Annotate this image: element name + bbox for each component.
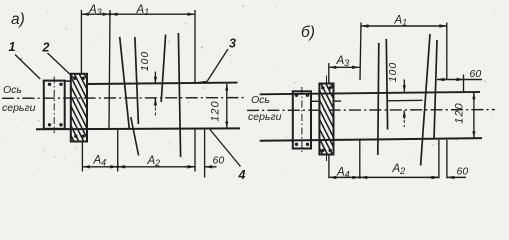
dimension 100 (radial) variant b — [387, 62, 406, 127]
label Ось серьги variant b — [248, 94, 282, 123]
dimension A4 variant a — [82, 155, 117, 169]
spring leaf end line t2a variant b — [421, 34, 430, 166]
spring leaf end line t1a variant b — [378, 43, 379, 155]
spring leaf end line t2a variant a — [161, 35, 165, 103]
item number 4 with leader — [210, 130, 246, 183]
svg-text:100: 100 — [387, 62, 399, 83]
svg-text:120: 120 — [210, 100, 222, 121]
dimension A1 variant b — [361, 15, 447, 28]
svg-text:б): б) — [301, 24, 315, 41]
dimension 60 top (outside arrows) variant b — [437, 68, 482, 93]
axis centerline (Ось серьги) variant a — [2, 97, 247, 100]
svg-text:4: 4 — [238, 168, 246, 181]
svg-text:100: 100 — [139, 51, 151, 72]
label b) variant marker — [301, 24, 315, 41]
hatched bushing variant b — [247, 76, 440, 162]
svg-text:120: 120 — [453, 102, 465, 123]
intermediate leaf top line segments variant b — [311, 100, 423, 101]
svg-text:60: 60 — [470, 68, 482, 80]
dimension 120 (vertical) variant a — [210, 84, 229, 129]
pin bottom outline line variant a — [36, 127, 240, 130]
shared extension line A3/A1 variant b — [360, 23, 361, 81]
svg-text:1: 1 — [9, 40, 16, 54]
spring leaf end line t1b variant b — [386, 39, 387, 130]
extension line A4/A2 boundary variant b — [359, 140, 361, 178]
spring leaf end line t1x (below) variant a — [131, 117, 139, 156]
svg-text:серьги: серьги — [248, 111, 282, 123]
extension line left of A3 (shackle axis) variant a — [80, 10, 82, 74]
extension line 60 left variant b — [438, 140, 440, 179]
pin bottom outline line variant b — [260, 138, 482, 141]
dimension 100 (radial) variant a — [139, 51, 157, 117]
dimension A3 variant b — [329, 55, 360, 69]
dimension 60 bottom (outside arrows) variant b — [428, 166, 468, 180]
item number 2 with leader — [42, 41, 76, 80]
extension line A4 left variant a — [81, 142, 83, 172]
label a) variant marker — [11, 11, 25, 28]
label Ось серьги variant a — [2, 84, 36, 114]
extension line A3 left variant b — [328, 63, 330, 84]
svg-text:серьги: серьги — [2, 102, 36, 114]
svg-text:Ось: Ось — [3, 84, 22, 96]
extension line 60 right variant a — [204, 129, 206, 178]
spring leaf end line t1b variant a — [135, 37, 139, 124]
dimension A2 variant b — [358, 163, 439, 179]
item number 3 with leader arrow — [199, 37, 237, 85]
spring leaf end line t2b variant b — [434, 40, 437, 140]
hatched bushing 2 (item 2) variant a — [1, 74, 187, 142]
dimension 120 (vertical) variant b — [453, 92, 475, 138]
pin top outline line variant b — [260, 92, 480, 94]
extension line right of A1 variant a — [194, 10, 196, 172]
spring leaf end line t1a variant a — [120, 37, 130, 129]
item number 1 with leader — [9, 40, 41, 79]
svg-text:60: 60 — [457, 166, 469, 178]
dimension A3 variant a — [81, 4, 110, 17]
dimension 60 (outside arrows) variant a — [184, 155, 225, 169]
svg-text:60: 60 — [213, 155, 225, 167]
shackle plate 1 (item 1) variant a — [44, 77, 71, 134]
svg-text:3: 3 — [229, 37, 236, 51]
spring leaf end line t2b variant a — [178, 33, 180, 157]
shared extension line A3/A1 variant a — [109, 10, 110, 129]
dimension A2 variant a — [116, 155, 195, 169]
paper speckle noise — [4, 5, 496, 179]
extension line A1 right variant b — [446, 23, 448, 179]
svg-text:а): а) — [11, 11, 25, 28]
shackle plate (left) variant b — [293, 87, 311, 153]
extension line A4 left variant b — [328, 155, 330, 179]
extension line A4/A2 boundary variant a — [117, 129, 119, 172]
dimension A4 variant b — [329, 167, 360, 180]
pin top outline line variant a — [87, 83, 238, 84]
svg-text:2: 2 — [42, 41, 50, 55]
axis centerline (Ось серьги) variant b — [247, 109, 495, 112]
dimension A1 variant a — [109, 4, 195, 17]
svg-text:Ось: Ось — [251, 94, 270, 106]
